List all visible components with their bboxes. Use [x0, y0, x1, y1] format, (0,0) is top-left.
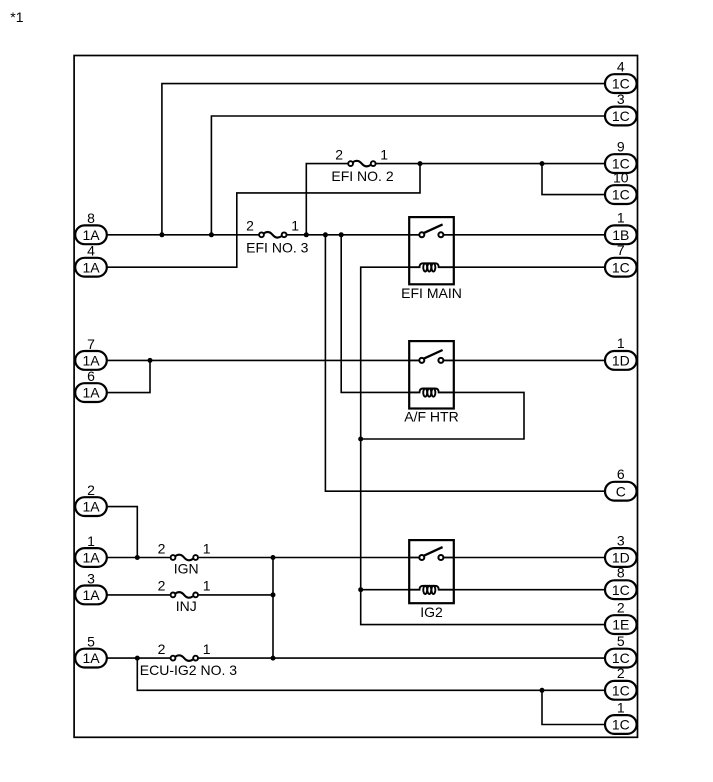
- svg-text:3: 3: [617, 532, 625, 548]
- wire 1A5 to ECU-IG2 fuse: [107, 657, 174, 659]
- junction ECU-IG2 in: [135, 656, 140, 661]
- junction EFI NO.2 feed: [304, 232, 309, 237]
- svg-text:EFI MAIN: EFI MAIN: [401, 285, 462, 301]
- wire IG2 coil tap: [361, 589, 410, 591]
- svg-text:2: 2: [617, 665, 625, 681]
- svg-text:IGN: IGN: [174, 561, 199, 577]
- fuse EFI NO. 2: [331, 146, 393, 183]
- connector C pin 6: [605, 466, 637, 501]
- svg-text:1A: 1A: [82, 227, 100, 243]
- svg-text:2: 2: [335, 146, 343, 162]
- wire EFI MAIN switch to 1B1: [441, 234, 605, 236]
- connector 1A pin 2: [75, 482, 107, 516]
- svg-text:1: 1: [617, 335, 625, 351]
- connector 1C pin 1: [605, 699, 637, 734]
- svg-text:6: 6: [87, 368, 95, 384]
- relay A/F HTR: [404, 341, 458, 425]
- wire branch to 1C10: [542, 164, 605, 195]
- svg-text:1A: 1A: [82, 650, 100, 666]
- svg-text:2: 2: [246, 218, 254, 234]
- svg-text:1A: 1A: [82, 385, 100, 401]
- wire 1A1 to IGN fuse: [107, 557, 174, 559]
- connector 1D pin 3: [605, 532, 637, 567]
- connector 1A pin 7: [75, 336, 107, 370]
- svg-text:*1: *1: [10, 9, 23, 25]
- svg-text:1A: 1A: [82, 587, 100, 603]
- connector 1B pin 1: [605, 210, 637, 245]
- wire INJ out: [196, 594, 273, 596]
- connector 1C pin 8: [605, 565, 637, 600]
- wire 1A7 to AF HTR switch row: [107, 359, 422, 361]
- svg-text:1D: 1D: [612, 550, 630, 566]
- wire 1A2 drop: [107, 507, 138, 558]
- wire ECU-IG2 branch to 1C2: [137, 658, 605, 690]
- svg-text:7: 7: [617, 242, 625, 258]
- junction EFI NO.2 out: [418, 161, 423, 166]
- connector 1C pin 10: [605, 169, 637, 204]
- wire node to 1C4: [162, 84, 605, 235]
- wire node to 1C3: [211, 116, 605, 235]
- svg-text:1A: 1A: [82, 499, 100, 515]
- junction IGN out: [271, 555, 276, 560]
- svg-text:5: 5: [87, 634, 95, 650]
- junction 1C4 riser: [159, 232, 164, 237]
- relay IG2: [409, 540, 454, 620]
- svg-text:1: 1: [87, 533, 95, 549]
- wire branch to 1C1: [542, 690, 605, 724]
- junction 1A6 riser: [148, 358, 153, 363]
- connector 1A pin 4: [75, 243, 107, 277]
- junction IG2 coil tap: [358, 587, 363, 592]
- wire EFI NO.2 output to 1C9: [373, 163, 605, 165]
- svg-text:2: 2: [158, 540, 166, 556]
- svg-text:1: 1: [380, 146, 388, 162]
- svg-text:3: 3: [617, 91, 625, 107]
- fuse ECU-IG2 NO. 3: [140, 641, 237, 678]
- wire C6 leg: [325, 235, 605, 491]
- svg-text:1: 1: [203, 641, 211, 657]
- svg-text:4: 4: [617, 58, 625, 74]
- svg-text:1E: 1E: [612, 617, 629, 633]
- svg-text:5: 5: [617, 633, 625, 649]
- connector 1C pin 4: [605, 58, 637, 93]
- svg-text:2: 2: [158, 641, 166, 657]
- svg-text:9: 9: [617, 138, 625, 154]
- svg-text:1D: 1D: [612, 353, 630, 369]
- connector 1A pin 3: [75, 570, 107, 604]
- junction 1C10 branch: [540, 161, 545, 166]
- junction coil common AF: [358, 437, 363, 442]
- svg-text:1: 1: [617, 699, 625, 715]
- connector 1C pin 5: [605, 633, 637, 668]
- wire AF HTR coil left leg: [341, 235, 409, 393]
- svg-text:3: 3: [87, 570, 95, 586]
- wire EFI MAIN coil right to 1C7: [454, 266, 605, 268]
- fuse IGN: [158, 540, 211, 576]
- wire 1A3 to INJ fuse: [107, 594, 174, 596]
- fuse EFI NO. 3: [246, 218, 309, 256]
- svg-text:4: 4: [87, 243, 95, 259]
- connector 1D pin 1: [605, 335, 637, 370]
- svg-text:1: 1: [617, 210, 625, 226]
- wire AF HTR switch to 1D1: [441, 359, 605, 361]
- wire EFI NO.2 feed leg: [306, 164, 350, 235]
- svg-text:1C: 1C: [612, 108, 630, 124]
- svg-text:2: 2: [158, 578, 166, 594]
- svg-text:C: C: [616, 483, 626, 499]
- svg-text:1A: 1A: [82, 259, 100, 275]
- svg-text:1C: 1C: [612, 717, 630, 733]
- svg-text:2: 2: [617, 599, 625, 615]
- junction AF coil leg: [339, 232, 344, 237]
- svg-text:ECU-IG2 NO. 3: ECU-IG2 NO. 3: [140, 662, 237, 678]
- junction INJ out: [271, 592, 276, 597]
- wire IGN INJ common drop: [272, 558, 274, 659]
- svg-text:1A: 1A: [82, 550, 100, 566]
- svg-text:6: 6: [617, 466, 625, 482]
- svg-text:A/F HTR: A/F HTR: [404, 409, 458, 425]
- svg-text:1C: 1C: [612, 650, 630, 666]
- wire EFI NO.3 to EFI MAIN switch: [284, 234, 422, 236]
- svg-text:1B: 1B: [612, 227, 629, 243]
- svg-text:IG2: IG2: [420, 604, 443, 620]
- connector 1A pin 6: [75, 368, 107, 402]
- svg-text:1A: 1A: [82, 353, 100, 369]
- junction 1C3 riser: [209, 232, 214, 237]
- junction ECU-IG2 out: [271, 656, 276, 661]
- svg-text:1C: 1C: [612, 76, 630, 92]
- svg-text:EFI NO. 3: EFI NO. 3: [246, 240, 308, 256]
- ECU outline border: [74, 56, 637, 738]
- wire IGN to IG2 switch: [196, 557, 422, 559]
- svg-text:8: 8: [87, 210, 95, 226]
- svg-text:1C: 1C: [612, 682, 630, 698]
- svg-text:1C: 1C: [612, 259, 630, 275]
- wire IG2 switch to 1D3: [441, 557, 605, 559]
- svg-text:10: 10: [613, 169, 629, 185]
- wire EFI MAIN coil left to common: [361, 267, 606, 624]
- wire 1A6 riser: [107, 360, 151, 392]
- wire 1A8 to EFI NO.3 fuse: [107, 234, 262, 236]
- svg-text:1: 1: [291, 218, 299, 234]
- svg-text:1: 1: [203, 540, 211, 556]
- svg-text:2: 2: [87, 482, 95, 498]
- svg-text:1C: 1C: [612, 187, 630, 203]
- connector 1C pin 3: [605, 91, 637, 126]
- wire EFI NO.2 to 1A4 link: [107, 164, 421, 268]
- connector 1A pin 1: [75, 533, 107, 567]
- fuse INJ: [158, 578, 211, 614]
- wire IG2 coil right to 1C8: [454, 589, 605, 591]
- wire ECU-IG2 to 1C5: [196, 657, 605, 659]
- connector 1A pin 5: [75, 634, 107, 668]
- connector 1A pin 8: [75, 210, 107, 244]
- svg-text:INJ: INJ: [176, 598, 197, 614]
- relay EFI MAIN: [401, 217, 462, 301]
- junction C6 leg: [323, 232, 328, 237]
- connector 1C pin 7: [605, 242, 637, 277]
- svg-text:1C: 1C: [612, 582, 630, 598]
- svg-text:7: 7: [87, 336, 95, 352]
- connector 1C pin 2: [605, 665, 637, 700]
- junction 1A2 drop: [135, 555, 140, 560]
- svg-text:8: 8: [617, 565, 625, 581]
- svg-text:1: 1: [203, 578, 211, 594]
- svg-text:EFI NO. 2: EFI NO. 2: [331, 168, 393, 184]
- connector 1E pin 2: [605, 599, 637, 634]
- connector 1C pin 9: [605, 138, 637, 173]
- wire AF HTR coil return: [361, 392, 524, 439]
- junction 1C1 branch: [540, 688, 545, 693]
